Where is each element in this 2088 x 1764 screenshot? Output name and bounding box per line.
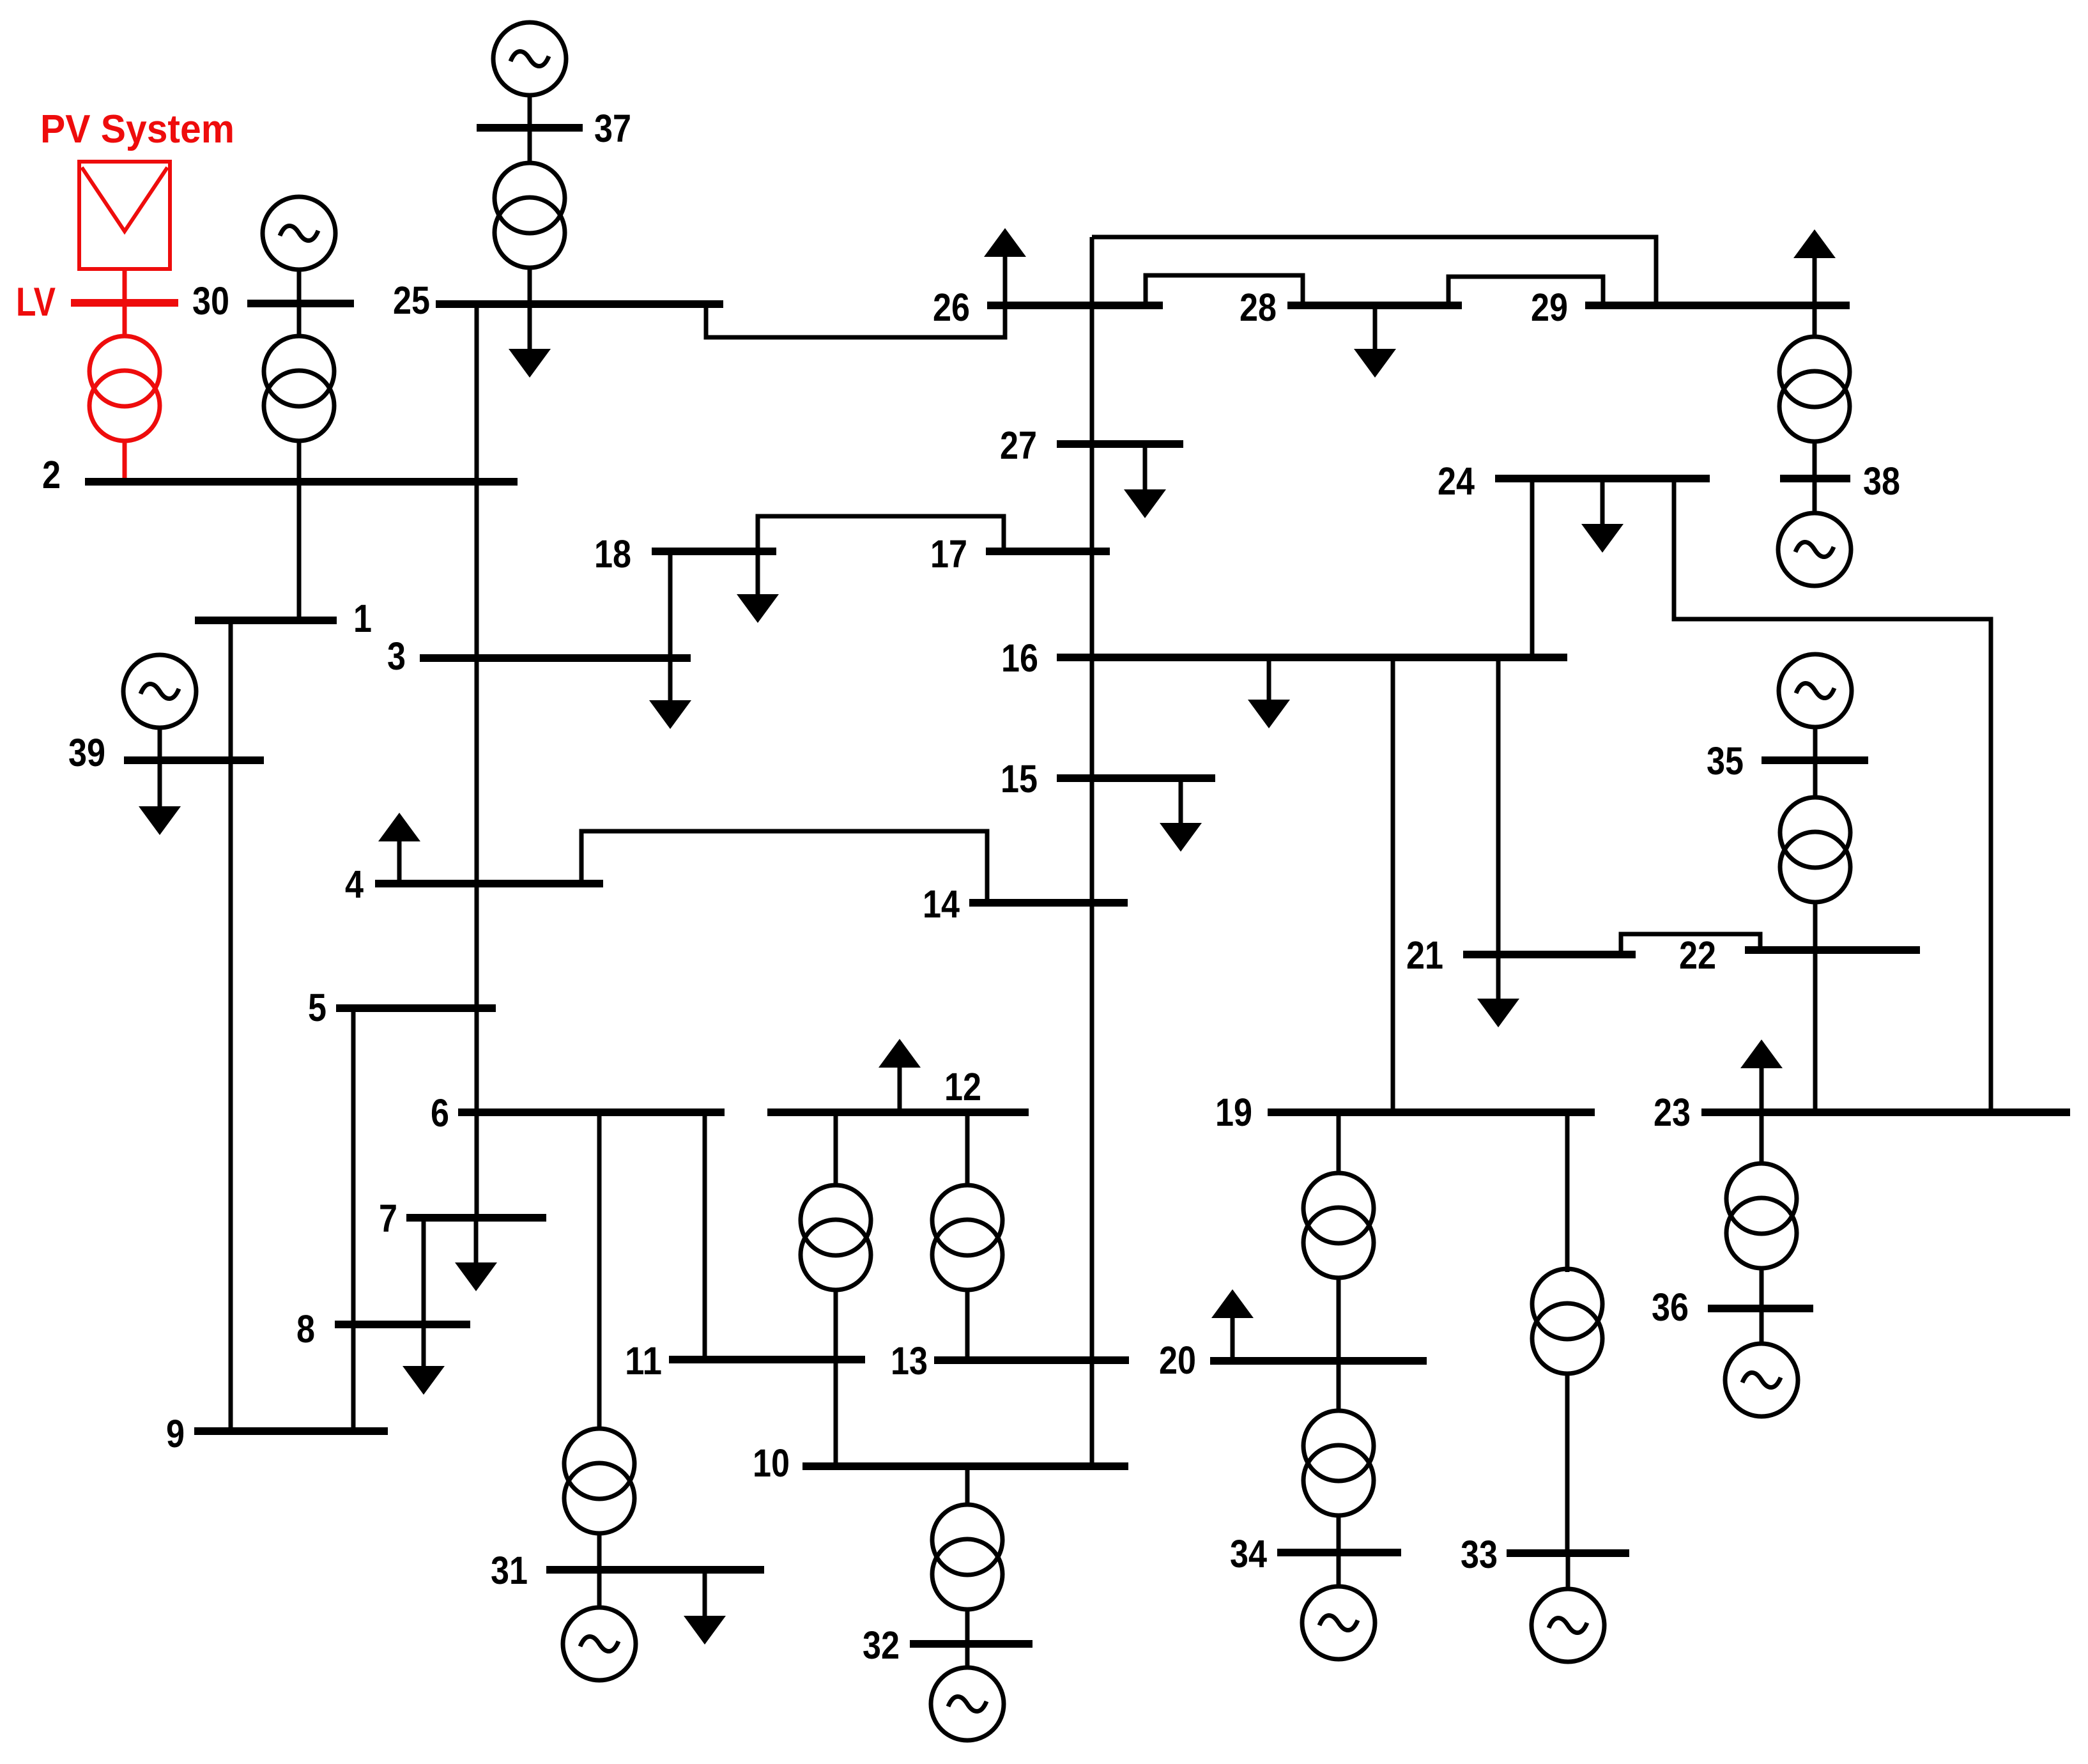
wire line 26-27-17-16-15-14-13-10 vertical bbox=[1090, 237, 1094, 1464]
transformer 6-31 bbox=[564, 1429, 634, 1533]
wire G39 to bus 39 bbox=[158, 727, 162, 758]
svg-text:10: 10 bbox=[753, 1441, 790, 1485]
svg-text:1: 1 bbox=[353, 597, 372, 640]
bus 24 bbox=[1495, 475, 1710, 482]
load arrow bus 21 load bbox=[1477, 957, 1519, 1027]
bus 25 bbox=[436, 300, 723, 308]
wire transformer 29-38 to bus 38 bbox=[1813, 441, 1817, 476]
generator G30 bbox=[263, 197, 335, 270]
load arrow bus 3 load bbox=[649, 661, 691, 729]
wire line 18-17 bbox=[758, 516, 1004, 549]
svg-text:5: 5 bbox=[308, 986, 326, 1029]
svg-text:9: 9 bbox=[166, 1412, 185, 1455]
svg-text:20: 20 bbox=[1159, 1338, 1196, 1382]
svg-text:4: 4 bbox=[345, 863, 364, 906]
load arrow bus 18 load bbox=[737, 554, 779, 623]
wire line 5-8-9 bbox=[351, 1012, 356, 1429]
generator G37 bbox=[493, 22, 566, 95]
bus 34 bbox=[1277, 1549, 1401, 1556]
svg-text:2: 2 bbox=[42, 453, 61, 496]
svg-text:6: 6 bbox=[431, 1091, 449, 1135]
wire transformer 30-2 to bus 2 bbox=[297, 440, 302, 480]
bus 38 bbox=[1780, 475, 1850, 482]
svg-text:37: 37 bbox=[594, 107, 631, 150]
bus 37 bbox=[477, 124, 583, 132]
svg-text:16: 16 bbox=[1001, 636, 1038, 680]
svg-text:36: 36 bbox=[1652, 1285, 1689, 1329]
wire bus 34 to G34 bbox=[1337, 1556, 1341, 1588]
wire G30 to bus 30 bbox=[297, 269, 302, 300]
bus 18 bbox=[652, 548, 776, 555]
bus 6 bbox=[458, 1108, 725, 1116]
svg-text:14: 14 bbox=[923, 882, 960, 926]
wire transformer 6-31 to bus 31 bbox=[597, 1533, 602, 1566]
bus 33 bbox=[1507, 1549, 1629, 1557]
load arrow bus 15 load bbox=[1160, 781, 1202, 852]
svg-text:32: 32 bbox=[863, 1623, 900, 1667]
svg-text:3: 3 bbox=[387, 634, 406, 678]
bus 20 bbox=[1210, 1357, 1427, 1365]
svg-text:31: 31 bbox=[491, 1549, 528, 1592]
load arrow bus 16 load bbox=[1248, 660, 1290, 728]
wire line 26-28 bridge bbox=[1146, 275, 1303, 305]
bus LV bbox=[71, 299, 178, 307]
svg-text:11: 11 bbox=[625, 1339, 662, 1383]
generator G31 bbox=[563, 1607, 636, 1680]
bus 28 bbox=[1287, 302, 1462, 309]
wire line 4-14 bbox=[581, 831, 987, 900]
svg-text:27: 27 bbox=[1000, 424, 1037, 467]
bus 3 bbox=[420, 654, 691, 662]
up arrow bus 12 injection bbox=[879, 1039, 921, 1110]
bus 2 bbox=[85, 478, 518, 486]
svg-text:19: 19 bbox=[1215, 1091, 1252, 1134]
svg-text:39: 39 bbox=[68, 731, 105, 774]
wire line 18-3 bbox=[668, 555, 673, 657]
wire bus 35 to transformer 35-22 bbox=[1813, 764, 1818, 799]
load arrow bus 8 load bbox=[403, 1326, 445, 1395]
wire G35 to bus 35 bbox=[1813, 726, 1818, 756]
wire line 16-21 bbox=[1496, 661, 1501, 952]
PV array symbol bbox=[79, 162, 170, 269]
bus 9 bbox=[194, 1427, 388, 1435]
wire bus 19 to transformer 19-33 bbox=[1565, 1116, 1570, 1272]
wire transformer 10-32 to bus 32 bbox=[965, 1608, 970, 1641]
wire line 26-29 upper bbox=[1092, 237, 1656, 303]
bus 11 bbox=[669, 1356, 865, 1363]
bus 16 bbox=[1057, 654, 1567, 661]
wire bus 19 to transformer 19-20 bbox=[1337, 1116, 1341, 1174]
generator G34 bbox=[1302, 1586, 1375, 1659]
wire bus 12 to transformer 12-11 bbox=[834, 1116, 838, 1186]
wire bus 36 to G36 bbox=[1760, 1312, 1764, 1343]
wire line 25-26 bbox=[706, 307, 1005, 337]
wire line 7-8 bbox=[422, 1222, 426, 1322]
wire line 28-29 bridge bbox=[1448, 277, 1603, 303]
svg-text:PV System: PV System bbox=[40, 107, 234, 151]
svg-text:15: 15 bbox=[1001, 757, 1038, 801]
wire bus 30 to transformer 30-2 bbox=[297, 307, 302, 337]
svg-text:26: 26 bbox=[933, 286, 970, 329]
wire bus 20 to transformer 20-34 bbox=[1337, 1365, 1341, 1412]
transformer 20-34 bbox=[1303, 1411, 1374, 1515]
bus 7 bbox=[406, 1214, 546, 1222]
wire LV bus to PV transformer bbox=[123, 307, 127, 337]
bus 35 bbox=[1762, 756, 1868, 764]
wire bus 33 to G33 bbox=[1566, 1557, 1570, 1591]
bus 12 bbox=[767, 1108, 1029, 1116]
up arrow bus 20 injection bbox=[1211, 1289, 1254, 1358]
bus 5 bbox=[336, 1004, 496, 1012]
bus 36 bbox=[1708, 1305, 1813, 1312]
bus 1 bbox=[195, 617, 337, 624]
wire bus 32 to G32 bbox=[965, 1648, 970, 1669]
generator G36 bbox=[1725, 1344, 1798, 1416]
generator G33 bbox=[1531, 1589, 1604, 1662]
bus 22 bbox=[1745, 946, 1920, 954]
svg-text:18: 18 bbox=[594, 532, 631, 576]
wire PV transformer to bus 2 bbox=[123, 440, 127, 480]
wire line 21-22 bridge bbox=[1621, 934, 1760, 952]
wire bus 38 to G38 bbox=[1813, 482, 1817, 514]
transformer 35-22 bbox=[1780, 797, 1850, 902]
wire transformer 20-34 to bus 34 bbox=[1337, 1514, 1341, 1550]
bus 27 bbox=[1057, 440, 1183, 448]
up arrow bus 4 injection bbox=[378, 813, 420, 881]
wire transformer 23-36 to bus 36 bbox=[1760, 1266, 1764, 1306]
wire bus 2 to bus 1 bbox=[297, 486, 302, 618]
bus 4 bbox=[375, 880, 603, 887]
wire G37 to bus 37 bbox=[528, 95, 532, 125]
wire transformer 12-13 to bus 13 bbox=[965, 1288, 970, 1357]
generator G39 bbox=[123, 655, 196, 728]
svg-text:7: 7 bbox=[379, 1197, 397, 1240]
svg-text:21: 21 bbox=[1406, 933, 1443, 977]
bus 17 bbox=[986, 548, 1110, 555]
transformer 10-32 bbox=[932, 1505, 1002, 1609]
wire line 22-23 bbox=[1813, 953, 1818, 1110]
transformer 37-25 bbox=[495, 163, 565, 268]
load arrow bus 28 load bbox=[1354, 308, 1396, 378]
bus 32 bbox=[910, 1640, 1032, 1648]
svg-text:25: 25 bbox=[393, 279, 430, 322]
generator G38 bbox=[1778, 513, 1851, 586]
load arrow bus 7 load bbox=[455, 1219, 497, 1291]
svg-text:30: 30 bbox=[192, 279, 229, 323]
bus 30 bbox=[247, 300, 354, 307]
wire bus 12 to transformer 12-13 bbox=[965, 1116, 970, 1186]
generator G32 bbox=[931, 1668, 1004, 1740]
bus 23 bbox=[1701, 1108, 2070, 1116]
wire transformer 35-22 to bus 22 bbox=[1813, 901, 1818, 946]
load arrow bus 39 load bbox=[139, 760, 181, 835]
transformer 19-20 bbox=[1303, 1173, 1374, 1278]
load arrow bus 25 load bbox=[509, 307, 551, 378]
wire bus 31 to G31 bbox=[597, 1574, 602, 1608]
transformer 19-33 bbox=[1532, 1269, 1602, 1374]
load arrow bus 31 load bbox=[684, 1572, 726, 1645]
bus 13 bbox=[934, 1356, 1129, 1364]
svg-text:23: 23 bbox=[1654, 1091, 1691, 1134]
svg-text:22: 22 bbox=[1679, 933, 1716, 977]
wire bus 1 to bus 39 to bus 9 bbox=[229, 624, 233, 1429]
up arrow bus 26 injection bbox=[984, 228, 1026, 303]
svg-text:12: 12 bbox=[944, 1065, 981, 1108]
wire line 24-16 bbox=[1530, 482, 1535, 655]
bus 39 bbox=[124, 756, 264, 764]
wire bus 37 to transformer 37-25 bbox=[528, 132, 532, 164]
wire line 24-23 right bbox=[1674, 482, 1991, 1110]
svg-text:33: 33 bbox=[1461, 1533, 1498, 1576]
wire bus 25 chain down to bus 7 bbox=[475, 308, 479, 1215]
svg-text:28: 28 bbox=[1240, 286, 1277, 329]
svg-text:29: 29 bbox=[1531, 286, 1568, 329]
bus 19 bbox=[1268, 1108, 1595, 1116]
bus 26 bbox=[987, 302, 1163, 309]
wire transformer 37-25 to bus 25 bbox=[528, 267, 532, 302]
bus 31 bbox=[546, 1566, 764, 1574]
wire transformer 19-33 to bus 33 bbox=[1565, 1375, 1570, 1550]
wire line 6-11 bbox=[703, 1116, 707, 1357]
wire transformer 19-20 to bus 20 bbox=[1337, 1277, 1341, 1358]
svg-text:13: 13 bbox=[891, 1339, 928, 1383]
transformer 12-11 bbox=[801, 1185, 871, 1290]
wire transformer 12-11 to bus 11 to bus 10 bbox=[834, 1288, 838, 1464]
transformer 30-2 bbox=[264, 336, 334, 441]
svg-text:38: 38 bbox=[1863, 459, 1900, 503]
load arrow bus 24 load bbox=[1581, 481, 1624, 553]
wire line 16-19 bbox=[1391, 661, 1395, 1110]
up arrow bus 29 injection bbox=[1793, 229, 1836, 303]
load arrow bus 27 load bbox=[1124, 447, 1166, 518]
svg-text:34: 34 bbox=[1230, 1532, 1267, 1576]
transformer 23-36 bbox=[1726, 1163, 1797, 1268]
svg-text:LV: LV bbox=[16, 280, 56, 325]
bus 8 bbox=[335, 1321, 470, 1328]
svg-text:8: 8 bbox=[296, 1307, 315, 1351]
wire bus 23 to transformer 23-36 bbox=[1760, 1116, 1764, 1165]
bus 29 bbox=[1585, 302, 1850, 309]
bus 10 bbox=[802, 1462, 1128, 1470]
svg-text:17: 17 bbox=[930, 532, 967, 576]
bus 21 bbox=[1463, 951, 1636, 958]
svg-text:35: 35 bbox=[1707, 739, 1744, 783]
transformer 12-13 bbox=[932, 1185, 1002, 1290]
wire bus 29 to transformer 29-38 bbox=[1813, 309, 1817, 338]
transformer 29-38 bbox=[1779, 337, 1850, 441]
wire bus 6 to transformer 6-31 bbox=[597, 1116, 602, 1430]
wire PV array to LV bus bbox=[123, 269, 127, 300]
wire bus 10 to transformer 10-32 bbox=[965, 1470, 970, 1506]
bus 15 bbox=[1057, 774, 1215, 782]
generator G35 bbox=[1779, 654, 1852, 727]
bus 14 bbox=[969, 899, 1128, 907]
transformer PV step-up bbox=[89, 336, 160, 441]
up arrow bus 23 injection bbox=[1740, 1039, 1783, 1110]
svg-text:24: 24 bbox=[1438, 459, 1475, 503]
